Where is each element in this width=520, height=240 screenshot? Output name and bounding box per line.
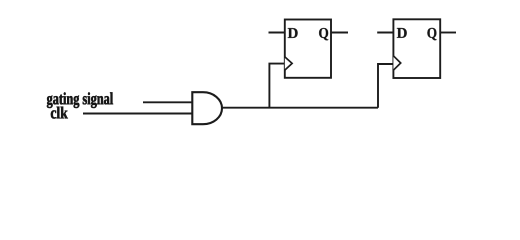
wire Q output of FF2 (440, 32, 456, 34)
label gating signal (47, 92, 113, 108)
wire D input of FF1 (269, 32, 285, 34)
wire gated-clock (AND output) (222, 107, 378, 109)
clock wedge of FF2 (393, 56, 400, 70)
d-flip-flop FF2 body (393, 19, 440, 78)
pin label Q of FF1 (319, 28, 328, 40)
wire clk input (83, 113, 192, 115)
label clk (51, 107, 68, 119)
wire Q output of FF1 (331, 32, 348, 34)
wire clock branch to FF1 (269, 64, 284, 108)
wire D input of FF2 (377, 32, 393, 34)
clock wedge of FF1 (285, 57, 292, 70)
wire gating-signal input (143, 101, 192, 103)
pin label D of FF2 (397, 28, 407, 38)
and-gate U1 (192, 92, 222, 124)
pin label D of FF1 (288, 28, 298, 38)
wire clock branch to FF2 (378, 64, 393, 108)
pin label Q of FF2 (427, 28, 436, 40)
d-flip-flop FF1 body (285, 20, 331, 78)
